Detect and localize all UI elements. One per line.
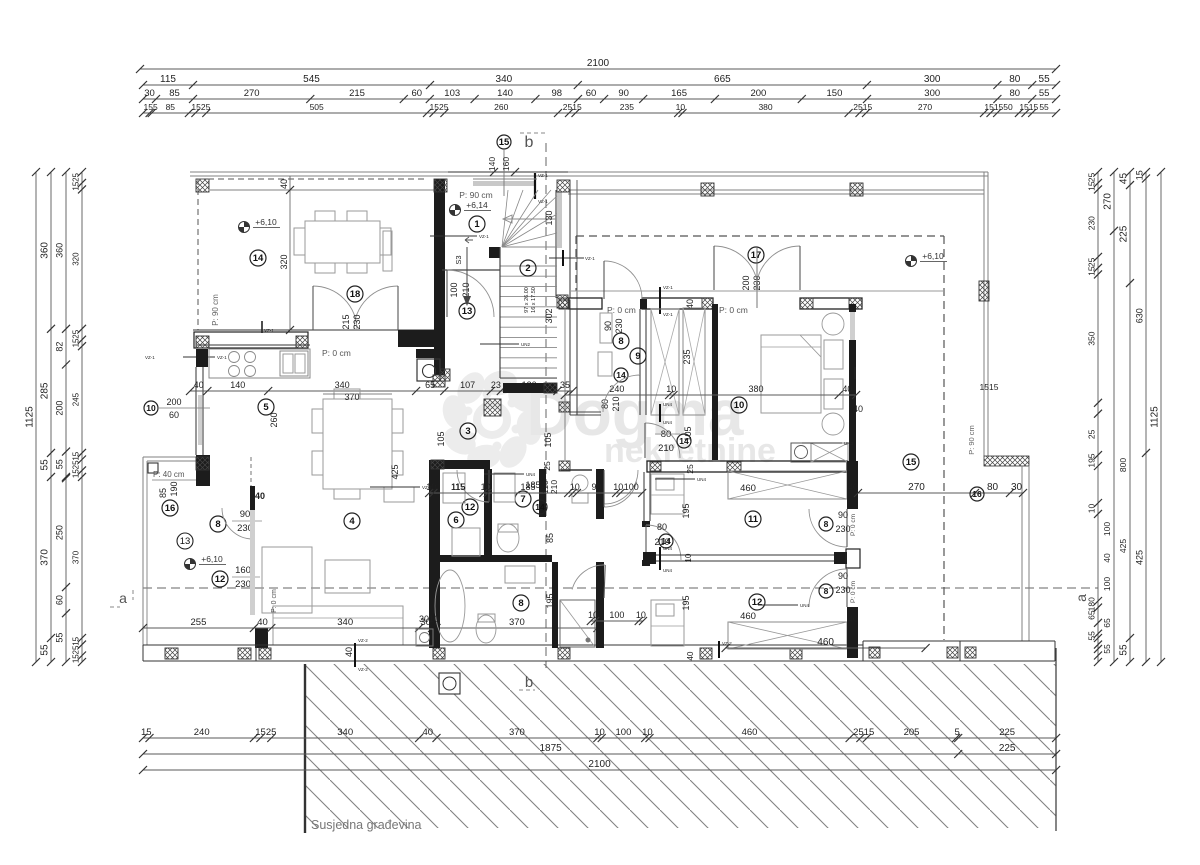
svg-text:90: 90 — [240, 509, 251, 520]
svg-text:15: 15 — [141, 727, 152, 738]
svg-text:5: 5 — [955, 727, 960, 738]
svg-text:320: 320 — [279, 254, 289, 269]
svg-text:40: 40 — [279, 179, 289, 189]
svg-text:200: 200 — [741, 275, 751, 290]
svg-text:P: 40 cm: P: 40 cm — [153, 470, 185, 479]
svg-text:40: 40 — [1102, 553, 1112, 563]
svg-text:25: 25 — [542, 461, 552, 471]
svg-text:40: 40 — [842, 384, 852, 394]
svg-text:370: 370 — [72, 550, 81, 564]
svg-text:8: 8 — [518, 598, 523, 609]
svg-text:300: 300 — [924, 88, 940, 99]
svg-text:340: 340 — [337, 727, 353, 738]
svg-text:60: 60 — [169, 410, 179, 420]
svg-text:260: 260 — [494, 102, 508, 112]
svg-text:370: 370 — [344, 392, 359, 402]
svg-text:380: 380 — [749, 384, 764, 394]
svg-text:460: 460 — [740, 483, 756, 494]
svg-text:460: 460 — [817, 637, 834, 648]
svg-text:90: 90 — [618, 88, 629, 99]
svg-text:VZ-2: VZ-2 — [358, 638, 368, 643]
svg-text:630: 630 — [1135, 308, 1145, 323]
svg-text:5: 5 — [263, 402, 269, 413]
svg-text:115: 115 — [451, 482, 465, 492]
svg-text:P: 0 cm: P: 0 cm — [850, 514, 857, 536]
svg-text:11: 11 — [748, 514, 759, 525]
svg-text:40: 40 — [194, 380, 204, 390]
svg-text:VZ-2: VZ-2 — [358, 667, 368, 672]
svg-text:150: 150 — [827, 88, 843, 99]
svg-text:100: 100 — [1102, 522, 1112, 536]
svg-text:425: 425 — [1118, 539, 1128, 553]
svg-text:340: 340 — [496, 74, 513, 85]
svg-text:195: 195 — [681, 595, 691, 610]
svg-text:a: a — [1073, 594, 1089, 602]
svg-text:1515: 1515 — [1019, 102, 1038, 112]
svg-text:40: 40 — [255, 491, 265, 501]
svg-text:200: 200 — [166, 397, 181, 407]
svg-text:55: 55 — [1039, 102, 1049, 112]
svg-text:215: 215 — [349, 88, 365, 99]
svg-text:60: 60 — [412, 88, 423, 99]
svg-text:2515: 2515 — [853, 727, 874, 738]
svg-text:360: 360 — [40, 242, 51, 259]
svg-text:8: 8 — [824, 519, 829, 529]
svg-text:b: b — [525, 134, 534, 151]
svg-text:8: 8 — [618, 336, 623, 347]
svg-text:P: 90 cm: P: 90 cm — [459, 190, 493, 200]
svg-text:15: 15 — [72, 181, 81, 190]
svg-text:10: 10 — [734, 400, 745, 411]
svg-text:55: 55 — [1039, 88, 1050, 99]
svg-text:16 x 17.50: 16 x 17.50 — [531, 287, 537, 313]
svg-text:270: 270 — [244, 88, 260, 99]
svg-text:65: 65 — [425, 380, 435, 390]
svg-text:15: 15 — [72, 636, 81, 645]
svg-text:10: 10 — [481, 482, 491, 492]
svg-text:195: 195 — [681, 503, 691, 518]
svg-text:230: 230 — [835, 585, 850, 595]
svg-text:25: 25 — [72, 172, 81, 181]
svg-text:25: 25 — [72, 645, 81, 654]
svg-text:16: 16 — [165, 503, 176, 514]
svg-text:300: 300 — [924, 74, 941, 85]
svg-text:235: 235 — [620, 102, 634, 112]
svg-text:13: 13 — [462, 306, 473, 317]
svg-text:210: 210 — [549, 480, 559, 494]
svg-text:55: 55 — [1087, 631, 1097, 641]
svg-text:14: 14 — [679, 436, 689, 446]
svg-text:23: 23 — [491, 380, 501, 390]
svg-text:12: 12 — [465, 502, 476, 513]
svg-text:80: 80 — [657, 522, 667, 532]
svg-text:25: 25 — [1087, 429, 1097, 439]
svg-text:2: 2 — [525, 263, 530, 274]
svg-text:380: 380 — [758, 102, 772, 112]
svg-text:230: 230 — [235, 579, 251, 590]
svg-text:a: a — [119, 590, 127, 606]
svg-text:225: 225 — [999, 727, 1015, 738]
svg-text:105: 105 — [543, 432, 553, 447]
svg-text:1125: 1125 — [25, 406, 36, 428]
svg-text:85: 85 — [166, 102, 176, 112]
svg-text:140: 140 — [230, 380, 245, 390]
svg-text:185: 185 — [520, 482, 535, 492]
svg-text:25: 25 — [1087, 172, 1097, 182]
svg-text:55: 55 — [55, 633, 65, 643]
svg-text:340: 340 — [337, 617, 353, 628]
svg-text:VZ-1: VZ-1 — [422, 485, 432, 490]
svg-text:55: 55 — [1119, 644, 1130, 656]
svg-text:225: 225 — [1119, 225, 1130, 242]
svg-text:1515: 1515 — [984, 102, 1003, 112]
svg-text:800: 800 — [1118, 458, 1128, 472]
svg-text:15: 15 — [72, 654, 81, 663]
svg-text:9: 9 — [635, 351, 640, 362]
svg-text:425: 425 — [1135, 550, 1145, 565]
svg-text:320: 320 — [72, 252, 81, 266]
svg-text:55: 55 — [1102, 644, 1112, 654]
svg-text:S3: S3 — [454, 255, 463, 264]
svg-text:270: 270 — [1103, 193, 1114, 210]
svg-text:90: 90 — [838, 510, 848, 520]
svg-text:VZ-1: VZ-1 — [663, 285, 673, 290]
svg-text:350: 350 — [1087, 331, 1097, 345]
svg-text:40: 40 — [257, 617, 268, 628]
svg-text:60: 60 — [586, 88, 597, 99]
svg-text:P: 90 cm: P: 90 cm — [967, 425, 976, 455]
svg-text:13: 13 — [180, 536, 191, 547]
svg-text:VZ-1: VZ-1 — [145, 355, 155, 360]
svg-text:10: 10 — [570, 482, 580, 492]
svg-text:VZ-1: VZ-1 — [538, 173, 548, 178]
svg-text:40: 40 — [848, 614, 858, 624]
svg-text:15: 15 — [499, 137, 510, 148]
svg-text:105: 105 — [436, 431, 446, 446]
svg-text:1525: 1525 — [191, 102, 210, 112]
svg-text:P: 0 cm: P: 0 cm — [322, 348, 351, 358]
svg-text:+6,10: +6,10 — [255, 217, 277, 227]
svg-text:10: 10 — [642, 727, 653, 738]
svg-text:+6,10: +6,10 — [922, 251, 944, 261]
svg-text:40: 40 — [848, 482, 858, 492]
svg-text:30: 30 — [419, 614, 429, 624]
svg-text:VZ-1: VZ-1 — [479, 234, 489, 239]
svg-text:115: 115 — [160, 74, 176, 85]
svg-text:UN4: UN4 — [697, 477, 706, 482]
svg-text:665: 665 — [714, 74, 731, 85]
svg-text:230: 230 — [835, 524, 850, 534]
svg-text:155: 155 — [144, 102, 158, 112]
svg-text:100: 100 — [1102, 577, 1112, 591]
svg-text:1525: 1525 — [255, 727, 276, 738]
svg-text:85: 85 — [158, 488, 168, 498]
svg-text:205: 205 — [904, 727, 920, 738]
svg-text:370: 370 — [509, 727, 525, 738]
svg-text:160: 160 — [235, 565, 251, 576]
svg-text:360: 360 — [55, 243, 65, 258]
svg-text:40: 40 — [853, 404, 863, 414]
svg-text:82: 82 — [55, 342, 65, 352]
svg-text:10: 10 — [588, 610, 598, 620]
svg-text:195: 195 — [545, 593, 555, 608]
svg-text:12: 12 — [215, 574, 226, 585]
svg-text:8: 8 — [824, 586, 829, 596]
svg-text:240: 240 — [194, 727, 210, 738]
svg-text:210: 210 — [658, 443, 674, 454]
svg-text:240: 240 — [609, 384, 624, 394]
svg-text:VZ-1: VZ-1 — [663, 312, 673, 317]
svg-text:15: 15 — [72, 338, 81, 347]
svg-text:270: 270 — [908, 482, 925, 493]
svg-text:15: 15 — [906, 457, 917, 468]
svg-text:302: 302 — [544, 308, 554, 323]
svg-text:10: 10 — [1087, 503, 1097, 513]
svg-text:80: 80 — [1010, 88, 1021, 99]
svg-text:2515: 2515 — [563, 102, 582, 112]
svg-text:107: 107 — [460, 380, 475, 390]
svg-text:2100: 2100 — [588, 759, 611, 770]
svg-text:230: 230 — [352, 314, 362, 329]
svg-text:190: 190 — [169, 481, 179, 496]
svg-text:10: 10 — [146, 403, 156, 413]
svg-text:UN4: UN4 — [526, 472, 535, 477]
svg-text:545: 545 — [303, 74, 320, 85]
svg-text:225: 225 — [999, 743, 1016, 754]
svg-text:14: 14 — [535, 502, 545, 512]
svg-text:30: 30 — [144, 88, 155, 99]
svg-text:60: 60 — [55, 595, 65, 605]
svg-text:18: 18 — [350, 289, 361, 300]
svg-text:90: 90 — [591, 482, 601, 492]
svg-text:15: 15 — [1087, 266, 1097, 276]
svg-text:285: 285 — [40, 382, 51, 399]
svg-text:UN4: UN4 — [663, 420, 672, 425]
svg-text:98: 98 — [551, 88, 562, 99]
svg-text:100: 100 — [624, 482, 639, 492]
svg-text:P: 0 cm: P: 0 cm — [850, 581, 857, 603]
svg-text:460: 460 — [740, 611, 756, 622]
svg-text:15: 15 — [1135, 170, 1145, 180]
svg-text:210: 210 — [461, 282, 471, 297]
svg-text:90: 90 — [838, 571, 848, 581]
svg-text:VZ-1: VZ-1 — [264, 328, 274, 333]
svg-text:1515: 1515 — [980, 382, 999, 392]
svg-text:Susjedna građevina: Susjedna građevina — [311, 818, 422, 832]
svg-text:505: 505 — [310, 102, 324, 112]
svg-text:80: 80 — [1009, 74, 1021, 85]
svg-text:7: 7 — [520, 494, 525, 505]
svg-text:255: 255 — [191, 617, 207, 628]
svg-text:245: 245 — [72, 392, 81, 406]
svg-text:17: 17 — [751, 250, 762, 261]
svg-text:215: 215 — [341, 314, 351, 329]
svg-text:10: 10 — [666, 384, 676, 394]
svg-text:P: 0 cm: P: 0 cm — [271, 589, 278, 613]
svg-text:10: 10 — [613, 482, 623, 492]
svg-text:25: 25 — [1087, 257, 1097, 267]
svg-text:103: 103 — [444, 88, 460, 99]
svg-text:55: 55 — [40, 459, 51, 471]
svg-text:230: 230 — [614, 318, 624, 333]
svg-text:55: 55 — [40, 644, 51, 656]
svg-text:25: 25 — [685, 464, 695, 474]
svg-text:40: 40 — [344, 647, 354, 657]
svg-text:15: 15 — [1087, 181, 1097, 191]
svg-text:165: 165 — [671, 88, 687, 99]
svg-text:80: 80 — [987, 482, 999, 493]
svg-text:25: 25 — [72, 329, 81, 338]
svg-text:195: 195 — [1087, 453, 1097, 467]
svg-text:30: 30 — [1011, 482, 1023, 493]
svg-text:UN4: UN4 — [663, 546, 672, 551]
svg-text:+6,14: +6,14 — [466, 200, 488, 210]
svg-text:65: 65 — [1087, 610, 1097, 620]
svg-text:VZ-2: VZ-2 — [722, 641, 732, 646]
svg-text:130: 130 — [544, 210, 554, 225]
svg-text:235: 235 — [682, 349, 692, 364]
svg-text:100: 100 — [449, 282, 459, 297]
svg-text:140: 140 — [487, 157, 497, 171]
svg-text:4: 4 — [349, 516, 355, 527]
svg-text:425: 425 — [390, 464, 400, 479]
svg-text:+6,10: +6,10 — [201, 554, 223, 564]
svg-text:160: 160 — [501, 157, 511, 171]
svg-text:UN2: UN2 — [521, 342, 530, 347]
svg-text:10: 10 — [684, 553, 693, 562]
svg-text:b: b — [525, 674, 533, 691]
svg-text:260: 260 — [269, 412, 279, 427]
svg-text:8: 8 — [215, 519, 220, 530]
svg-text:10: 10 — [636, 610, 646, 620]
svg-text:3: 3 — [465, 426, 470, 437]
svg-text:85: 85 — [169, 88, 180, 99]
svg-text:1875: 1875 — [540, 743, 563, 754]
svg-text:UN4: UN4 — [800, 603, 809, 608]
svg-text:16: 16 — [972, 489, 982, 499]
svg-text:140: 140 — [497, 88, 513, 99]
svg-text:40: 40 — [423, 727, 434, 738]
svg-text:65: 65 — [1102, 618, 1112, 628]
svg-text:80: 80 — [661, 429, 672, 440]
svg-text:230: 230 — [1087, 216, 1097, 230]
svg-text:1125: 1125 — [1150, 406, 1161, 428]
svg-text:370: 370 — [509, 617, 525, 628]
svg-text:100: 100 — [616, 727, 632, 738]
svg-text:40: 40 — [686, 651, 695, 660]
svg-text:1: 1 — [474, 219, 480, 230]
svg-text:12: 12 — [752, 597, 763, 608]
svg-text:14: 14 — [253, 253, 264, 264]
svg-text:55: 55 — [1039, 74, 1051, 85]
svg-text:2100: 2100 — [587, 58, 610, 69]
svg-text:UN4: UN4 — [663, 568, 672, 573]
svg-text:10: 10 — [594, 727, 605, 738]
svg-text:10: 10 — [429, 614, 439, 624]
svg-text:45: 45 — [1119, 173, 1130, 185]
svg-text:50: 50 — [1003, 102, 1013, 112]
svg-text:6: 6 — [453, 515, 458, 526]
svg-text:1525: 1525 — [430, 102, 449, 112]
svg-text:200: 200 — [750, 88, 766, 99]
svg-text:UN4: UN4 — [663, 402, 672, 407]
svg-text:250: 250 — [55, 525, 65, 540]
svg-text:460: 460 — [742, 727, 758, 738]
svg-text:85: 85 — [545, 533, 555, 543]
svg-text:VZ-1: VZ-1 — [585, 256, 595, 261]
svg-text:UN3: UN3 — [844, 441, 853, 446]
svg-text:P: 90 cm: P: 90 cm — [211, 294, 220, 326]
svg-text:2515: 2515 — [853, 102, 872, 112]
svg-text:55: 55 — [55, 459, 65, 469]
svg-text:25: 25 — [72, 460, 81, 469]
svg-text:270: 270 — [918, 102, 932, 112]
svg-text:97 x 26.00: 97 x 26.00 — [524, 287, 530, 313]
svg-text:VZ-1: VZ-1 — [217, 355, 227, 360]
svg-text:P: 0 cm: P: 0 cm — [719, 305, 748, 315]
svg-text:10: 10 — [676, 102, 686, 112]
svg-text:210: 210 — [611, 396, 621, 411]
svg-text:200: 200 — [55, 401, 65, 416]
svg-text:15: 15 — [72, 469, 81, 478]
svg-text:15: 15 — [72, 451, 81, 460]
svg-text:370: 370 — [40, 549, 51, 566]
svg-text:100: 100 — [609, 610, 624, 620]
